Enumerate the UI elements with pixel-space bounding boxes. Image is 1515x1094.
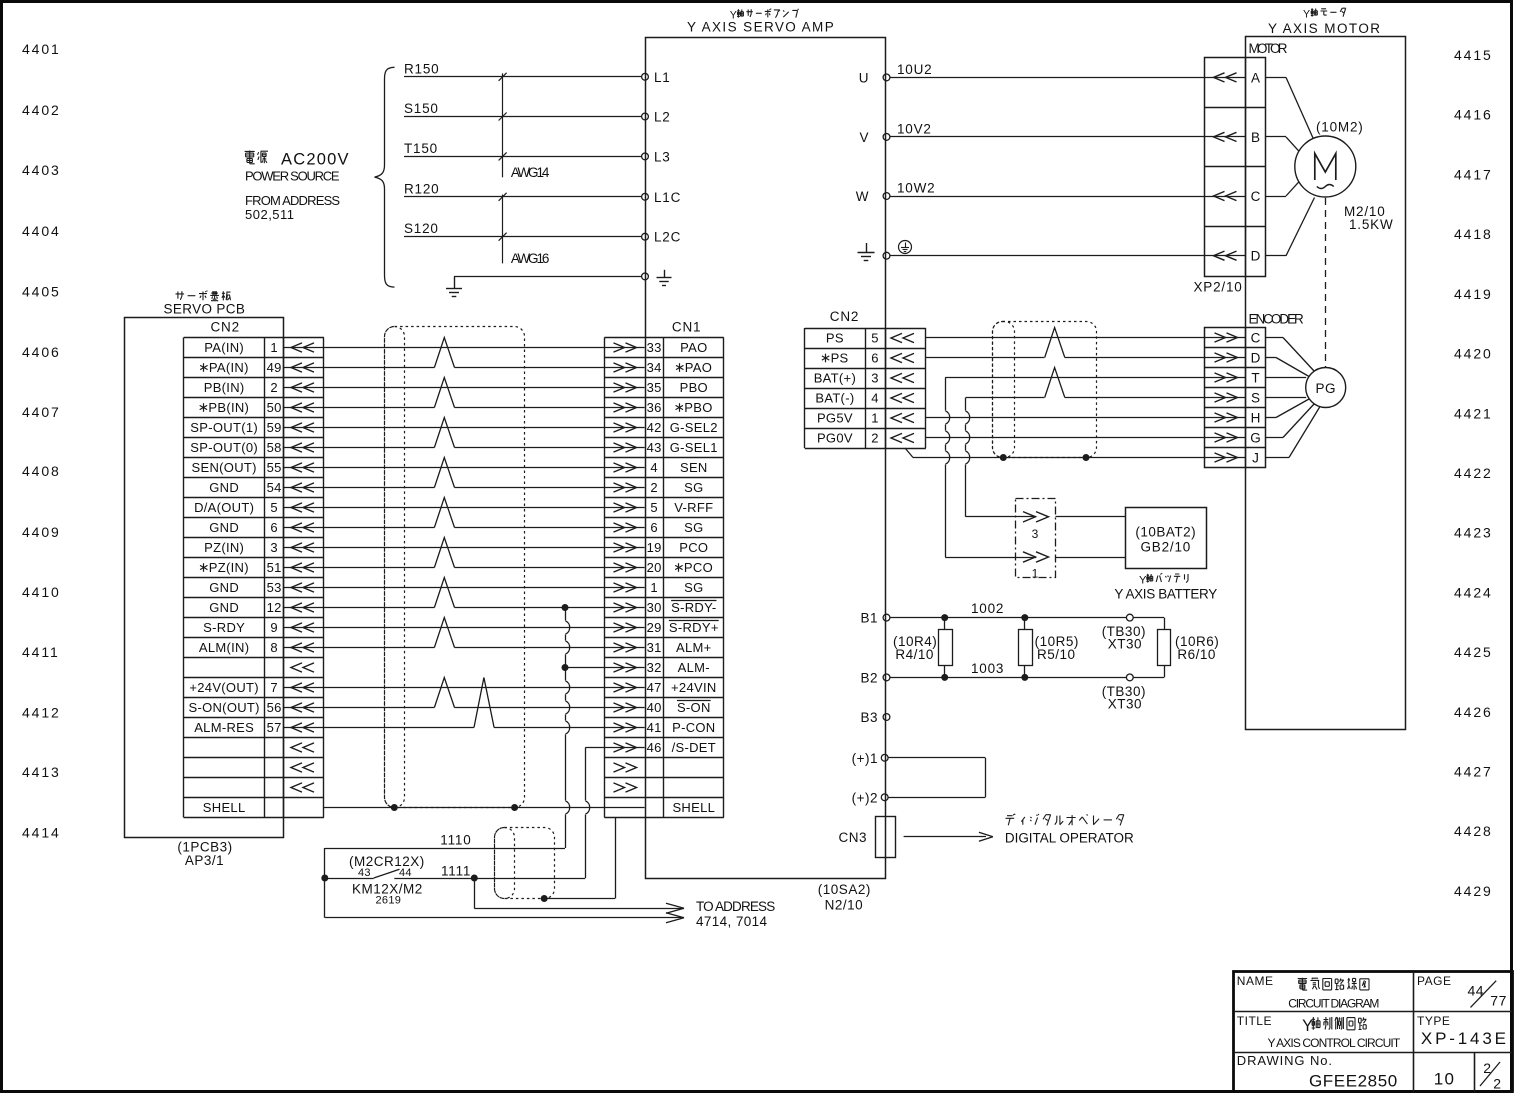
svg-text:1: 1	[270, 340, 278, 355]
svg-text:4415: 4415	[1454, 47, 1493, 63]
svg-text:ALM-: ALM-	[678, 660, 710, 675]
svg-text:8: 8	[270, 640, 278, 655]
svg-text:33: 33	[647, 340, 662, 355]
svg-text:1110: 1110	[440, 833, 471, 848]
svg-text:54: 54	[267, 480, 282, 495]
svg-text:12: 12	[267, 600, 282, 615]
svg-text:AP3/1: AP3/1	[185, 853, 224, 868]
svg-text:FROM ADDRESS: FROM ADDRESS	[245, 193, 340, 208]
svg-text:/S-DET: /S-DET	[672, 740, 716, 755]
svg-text:+24VIN: +24VIN	[671, 680, 717, 695]
ground wire from amp left bottom terminal	[454, 276, 642, 278]
svg-text:XT30: XT30	[1108, 637, 1142, 652]
svg-text:57: 57	[267, 720, 282, 735]
svg-text:XP-143E: XP-143E	[1421, 1029, 1509, 1048]
svg-text:4424: 4424	[1454, 584, 1493, 600]
svg-text:4404: 4404	[22, 223, 61, 239]
shield drain to CN1 SHELL	[544, 898, 615, 900]
power source label	[245, 151, 255, 164]
svg-text:(10M2): (10M2)	[1316, 120, 1364, 135]
harness wires CN2 to CN1	[284, 347, 605, 349]
svg-text:5: 5	[270, 500, 278, 515]
svg-text:AWG16: AWG16	[511, 251, 549, 266]
CN2 pcb connector table	[184, 337, 324, 339]
svg-text:53: 53	[267, 580, 282, 595]
svg-text:10U2: 10U2	[897, 62, 932, 77]
BAT- wire to S and battery	[966, 397, 1246, 399]
svg-text:CN2: CN2	[211, 320, 240, 335]
terminal B3	[883, 714, 890, 721]
svg-text:4406: 4406	[22, 344, 61, 360]
terminals XT30 TB30	[1126, 614, 1133, 621]
power source wires R150 S150 T150 R120 S120	[404, 76, 642, 78]
cable shield screen left harness	[385, 327, 405, 808]
svg-text:2619: 2619	[376, 895, 402, 907]
svg-text:S-RDY+: S-RDY+	[669, 620, 719, 635]
battery GB2/10 10BAT2	[1126, 508, 1207, 569]
svg-text:6: 6	[871, 351, 879, 366]
svg-text:S: S	[1251, 391, 1260, 406]
svg-text:CN2: CN2	[830, 309, 859, 324]
svg-text:1: 1	[1032, 567, 1039, 581]
svg-text:GND: GND	[209, 580, 239, 595]
svg-text:1: 1	[650, 580, 658, 595]
svg-text:10W2: 10W2	[897, 181, 935, 196]
svg-text:4410: 4410	[22, 584, 61, 600]
svg-text:S150: S150	[404, 101, 439, 116]
svg-text:GND: GND	[209, 600, 239, 615]
svg-text:C: C	[1251, 189, 1261, 204]
svg-text:SP-OUT(0): SP-OUT(0)	[190, 440, 258, 455]
svg-text:DIGITAL OPERATOR: DIGITAL OPERATOR	[1005, 831, 1134, 846]
svg-text:2: 2	[1493, 1076, 1501, 1092]
svg-text:19: 19	[647, 540, 662, 555]
svg-text:R4/10: R4/10	[895, 647, 934, 662]
svg-text:2: 2	[871, 431, 879, 446]
resistor R6/10	[1164, 618, 1166, 630]
svg-text:SP-OUT(1): SP-OUT(1)	[190, 420, 258, 435]
svg-text:3: 3	[270, 540, 278, 555]
svg-text:(10BAT2): (10BAT2)	[1135, 525, 1196, 540]
svg-text:J: J	[1252, 451, 1259, 466]
motor M1 circle	[1295, 136, 1356, 197]
svg-text:41: 41	[647, 720, 662, 735]
battery connector plug	[1016, 516, 1036, 518]
svg-text:PA(IN): PA(IN)	[204, 340, 244, 355]
svg-text:4417: 4417	[1454, 166, 1493, 182]
svg-text:AWG14: AWG14	[511, 165, 550, 180]
svg-text:TO ADDRESS: TO ADDRESS	[696, 899, 775, 914]
svg-text:W: W	[856, 189, 869, 204]
svg-text:31: 31	[647, 640, 662, 655]
svg-text:(M2CR12X): (M2CR12X)	[349, 854, 425, 869]
svg-text:42: 42	[647, 420, 662, 435]
svg-text:GB2/10: GB2/10	[1141, 540, 1192, 555]
svg-text:PBO: PBO	[684, 400, 712, 415]
svg-text:SG: SG	[684, 520, 703, 535]
svg-text:49: 49	[267, 360, 282, 375]
svg-text:T150: T150	[404, 141, 438, 156]
wire gauge mark AWG16	[502, 195, 504, 264]
svg-text:20: 20	[647, 560, 662, 575]
svg-text:(+)1: (+)1	[852, 751, 878, 766]
svg-text:PAO: PAO	[680, 340, 707, 355]
wire to ALM- pin32	[562, 664, 569, 671]
svg-text:PZ(IN): PZ(IN)	[209, 560, 249, 575]
svg-text:4416: 4416	[1454, 107, 1493, 123]
svg-text:2: 2	[270, 380, 278, 395]
wire to /S-DET pin46 (1111)	[585, 747, 604, 749]
svg-text:3: 3	[1032, 527, 1039, 541]
svg-text:Y AXIS MOTOR: Y AXIS MOTOR	[1268, 21, 1381, 36]
svg-text:PBO: PBO	[680, 380, 708, 395]
svg-text:4414: 4414	[22, 825, 61, 841]
svg-text:1: 1	[871, 411, 879, 426]
svg-text:58: 58	[267, 440, 282, 455]
svg-text:(10SA2): (10SA2)	[818, 882, 871, 897]
svg-text:4: 4	[871, 391, 879, 406]
svg-text:GND: GND	[209, 480, 239, 495]
svg-text:P-CON: P-CON	[672, 720, 715, 735]
encoder cable wires	[926, 337, 1246, 339]
svg-text:PA(IN): PA(IN)	[209, 360, 249, 375]
svg-text:9: 9	[270, 620, 278, 635]
svg-text:4427: 4427	[1454, 764, 1493, 780]
svg-text:PS: PS	[826, 331, 844, 346]
svg-text:4421: 4421	[1454, 405, 1493, 421]
svg-text:H: H	[1251, 411, 1261, 426]
earth symbol at amp output	[866, 243, 868, 252]
svg-text:10V2: 10V2	[897, 121, 932, 136]
terminal B2	[883, 674, 890, 681]
svg-text:29: 29	[647, 620, 662, 635]
svg-text:4408: 4408	[22, 463, 61, 479]
svg-text:L1: L1	[654, 70, 671, 85]
svg-text:A: A	[1251, 70, 1260, 85]
svg-text:Y: Y	[1302, 1017, 1313, 1035]
earth symbol at amp left input	[664, 270, 666, 278]
svg-text:CN1: CN1	[672, 319, 701, 334]
svg-text:SG: SG	[684, 580, 703, 595]
svg-text:59: 59	[267, 420, 282, 435]
svg-text:4403: 4403	[22, 162, 61, 178]
svg-text:43: 43	[647, 440, 662, 455]
battery verticals	[945, 378, 947, 411]
svg-text:ALM(IN): ALM(IN)	[199, 640, 250, 655]
svg-text:10: 10	[1434, 1070, 1455, 1089]
svg-text:36: 36	[647, 400, 662, 415]
svg-text:NAME: NAME	[1237, 974, 1274, 988]
svg-text:B: B	[1251, 130, 1260, 145]
title block	[1234, 972, 1513, 1092]
svg-text:TITLE: TITLE	[1237, 1014, 1272, 1028]
svg-text:+24V(OUT): +24V(OUT)	[189, 680, 259, 695]
SHELL wire left pcb	[324, 807, 605, 809]
svg-text:3: 3	[871, 371, 879, 386]
svg-text:4407: 4407	[22, 404, 61, 420]
svg-text:T: T	[1251, 371, 1259, 386]
svg-text:PZ(IN): PZ(IN)	[204, 540, 244, 555]
svg-text:77: 77	[1490, 992, 1507, 1008]
svg-text:B2: B2	[860, 670, 878, 685]
triple bundle humps +24V S-ON ALM-RES	[434, 706, 454, 709]
svg-text:4420: 4420	[1454, 346, 1493, 362]
svg-text:4425: 4425	[1454, 644, 1493, 660]
relay contact M2CR12X KM12X/M2	[324, 848, 326, 918]
svg-text:6: 6	[270, 520, 278, 535]
svg-text:SG: SG	[684, 480, 703, 495]
PG encoder circle	[1306, 368, 1346, 408]
svg-text:L2C: L2C	[654, 230, 681, 245]
shield J wire	[905, 448, 913, 458]
svg-text:50: 50	[267, 400, 282, 415]
svg-text:502,511: 502,511	[245, 207, 295, 222]
svg-text:PCO: PCO	[684, 560, 713, 575]
svg-text:D/A(OUT): D/A(OUT)	[194, 500, 254, 515]
svg-text:ALM+: ALM+	[676, 640, 712, 655]
svg-text:PB(IN): PB(IN)	[204, 380, 245, 395]
cable shield screen 1110/1111	[495, 828, 515, 899]
svg-text:PAO: PAO	[685, 360, 712, 375]
svg-text:47: 47	[647, 680, 662, 695]
svg-text:4423: 4423	[1454, 525, 1493, 541]
svg-text:D: D	[1251, 249, 1261, 264]
svg-text:6: 6	[650, 520, 658, 535]
terminal (+)1 and jumper	[881, 754, 888, 761]
svg-text:4429: 4429	[1454, 883, 1493, 899]
terminal B1	[883, 614, 890, 621]
svg-text:AC200V: AC200V	[281, 151, 350, 169]
svg-text:4409: 4409	[22, 524, 61, 540]
power source brace	[375, 67, 395, 287]
svg-text:7: 7	[270, 680, 278, 695]
svg-text:1111: 1111	[441, 864, 471, 879]
svg-text:S-ON: S-ON	[677, 700, 711, 715]
wire gauge mark AWG14	[502, 73, 504, 177]
svg-text:R120: R120	[404, 181, 439, 196]
motor power wires 10U2 10V2 10W2 PE	[890, 77, 1246, 79]
encoder connector pins	[1205, 328, 1266, 468]
svg-text:51: 51	[267, 560, 282, 575]
svg-text:Y AXIS CONTROL CIRCUIT: Y AXIS CONTROL CIRCUIT	[1268, 1036, 1401, 1050]
svg-text:BAT(-): BAT(-)	[815, 391, 854, 406]
svg-text:G: G	[1250, 431, 1261, 446]
svg-text:TYPE: TYPE	[1417, 1014, 1450, 1028]
svg-text:32: 32	[647, 660, 662, 675]
svg-text:1003: 1003	[971, 661, 1004, 676]
junction dot GND12 wire	[562, 604, 569, 611]
connector CN3	[876, 817, 896, 858]
svg-text:S-RDY-: S-RDY-	[671, 600, 716, 615]
svg-text:PAGE: PAGE	[1417, 974, 1451, 988]
to address wires	[474, 878, 476, 908]
earth ground symbol	[454, 276, 456, 288]
svg-text:4412: 4412	[22, 705, 61, 721]
svg-text:R6/10: R6/10	[1177, 647, 1216, 662]
svg-text:B3: B3	[860, 710, 878, 725]
svg-text:SEN: SEN	[680, 460, 708, 475]
svg-text:Y AXIS SERVO AMP: Y AXIS SERVO AMP	[687, 20, 835, 35]
PG0V wire to G	[926, 437, 1246, 439]
svg-text:30: 30	[647, 600, 662, 615]
svg-text:S-ON(OUT): S-ON(OUT)	[188, 700, 259, 715]
svg-text:4413: 4413	[22, 764, 61, 780]
svg-text:4426: 4426	[1454, 704, 1493, 720]
svg-text:Y: Y	[1303, 8, 1310, 20]
svg-text:N2/10: N2/10	[825, 898, 864, 913]
svg-text:V: V	[859, 130, 869, 145]
svg-text:(+)2: (+)2	[852, 790, 878, 805]
PG5V wire to H	[926, 417, 1246, 419]
svg-text:L2: L2	[654, 110, 671, 125]
protective earth circled symbol	[899, 241, 912, 254]
svg-text:4714, 7014: 4714, 7014	[696, 914, 767, 929]
svg-text:BAT(+): BAT(+)	[814, 371, 856, 386]
svg-text:PS: PS	[831, 351, 849, 366]
svg-text:55: 55	[267, 460, 282, 475]
svg-text:56: 56	[267, 700, 282, 715]
svg-text:PG: PG	[1315, 381, 1336, 396]
svg-text:R150: R150	[404, 61, 439, 76]
svg-text:4422: 4422	[1454, 465, 1493, 481]
svg-text:Y: Y	[1139, 574, 1147, 586]
svg-text:35: 35	[647, 380, 662, 395]
svg-text:L1C: L1C	[654, 190, 681, 205]
resistor R4/10	[939, 630, 953, 666]
svg-text:SHELL: SHELL	[672, 800, 715, 815]
power input terminals L1 L2 L3 L1C L2C PE	[642, 73, 649, 80]
svg-text:DRAWING No.: DRAWING No.	[1237, 1053, 1333, 1068]
svg-text:XT30: XT30	[1108, 697, 1142, 712]
svg-text:PCO: PCO	[679, 540, 708, 555]
svg-text:CN3: CN3	[838, 830, 867, 845]
svg-text:S-RDY: S-RDY	[203, 620, 245, 635]
svg-text:U: U	[859, 70, 869, 85]
svg-text:5: 5	[650, 500, 658, 515]
svg-text:40: 40	[647, 700, 662, 715]
svg-text:4411: 4411	[22, 644, 60, 660]
svg-text:SEN(OUT): SEN(OUT)	[192, 460, 257, 475]
svg-text:ALM-RES: ALM-RES	[194, 720, 254, 735]
encoder lead wires	[1265, 337, 1283, 339]
svg-text:46: 46	[647, 740, 662, 755]
svg-text:PG0V: PG0V	[817, 431, 853, 446]
SERVO PCB board box 1PCB3	[125, 318, 284, 838]
svg-text:XP2/10: XP2/10	[1194, 280, 1243, 295]
svg-text:2: 2	[650, 480, 658, 495]
svg-text:S120: S120	[404, 221, 439, 236]
svg-text:V-RFF: V-RFF	[674, 500, 713, 515]
svg-text:4402: 4402	[22, 102, 61, 118]
svg-text:4401: 4401	[22, 41, 61, 57]
arrow to digital operator	[904, 836, 986, 838]
svg-text:Y AXIS BATTERY: Y AXIS BATTERY	[1114, 586, 1217, 601]
svg-text:CIRCUIT DIAGRAM: CIRCUIT DIAGRAM	[1288, 996, 1379, 1010]
svg-text:SHELL: SHELL	[203, 800, 246, 815]
svg-text:5: 5	[871, 331, 879, 346]
svg-text:4419: 4419	[1454, 286, 1493, 302]
svg-text:G-SEL1: G-SEL1	[670, 440, 718, 455]
svg-text:4405: 4405	[22, 284, 61, 300]
svg-text:SERVO PCB: SERVO PCB	[164, 302, 246, 317]
wire 1002	[890, 617, 1127, 619]
svg-text:34: 34	[647, 360, 662, 375]
BAT+ wire to T and battery	[945, 377, 1246, 379]
dashed shaft line motor to encoder	[1325, 198, 1327, 367]
svg-text:1002: 1002	[971, 601, 1004, 616]
cable shield screen encoder harness	[993, 322, 1015, 458]
svg-text:R5/10: R5/10	[1037, 647, 1076, 662]
svg-text:D: D	[1251, 351, 1261, 366]
svg-text:MOTOR: MOTOR	[1249, 41, 1288, 56]
svg-text:PB(IN): PB(IN)	[208, 400, 249, 415]
svg-text:L3: L3	[654, 149, 671, 164]
Y AXIS SERVO AMP box U1	[646, 38, 886, 879]
wire 1110	[325, 848, 565, 850]
svg-text:G-SEL2: G-SEL2	[670, 420, 718, 435]
svg-text:GND: GND	[209, 520, 239, 535]
twisted pair humps	[434, 366, 454, 369]
vertical bus wire 1110 to S-RDY-/ALM-	[565, 608, 567, 621]
svg-text:B1: B1	[860, 611, 878, 626]
svg-text:GFEE2850: GFEE2850	[1309, 1072, 1398, 1091]
wire 1003	[890, 677, 1127, 679]
svg-text:POWER SOURCE: POWER SOURCE	[245, 169, 340, 184]
svg-text:PG5V: PG5V	[817, 411, 853, 426]
resistor R5/10	[1019, 630, 1033, 666]
svg-text:ENCODER: ENCODER	[1249, 312, 1305, 327]
connector XP2/10	[1205, 58, 1266, 277]
svg-text:C: C	[1251, 331, 1261, 346]
Y AXIS MOTOR box	[1246, 37, 1406, 730]
motor lead wires	[1265, 77, 1286, 79]
amp output terminals U V W PE	[883, 74, 890, 81]
svg-text:1.5KW: 1.5KW	[1349, 217, 1394, 232]
svg-text:4428: 4428	[1454, 823, 1493, 839]
svg-text:4418: 4418	[1454, 226, 1493, 242]
svg-text:4: 4	[650, 460, 658, 475]
